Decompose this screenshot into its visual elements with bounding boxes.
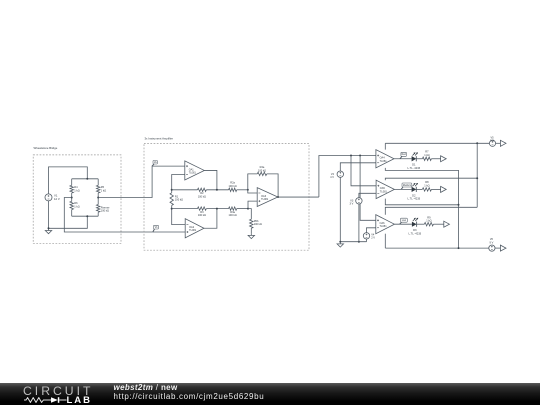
junction V1-/ground [48, 227, 50, 229]
svg-text:1 kΩ: 1 kΩ [424, 153, 429, 157]
svg-text:Wheatstone Bridge: Wheatstone Bridge [34, 146, 58, 150]
logo resistor zigzag [24, 398, 51, 403]
svg-text:1 kΩ: 1 kΩ [74, 205, 79, 209]
wire left tap to OA2+ run [64, 198, 153, 233]
wire to OA3 non-inverting input [248, 201, 257, 209]
node V3 on ground run [358, 241, 360, 243]
wire in-amp output riser [319, 156, 376, 198]
wire R4a feedback top [248, 174, 257, 190]
wire signal trunk1 to OA5+ [351, 156, 376, 186]
wire OA3 output [278, 196, 319, 198]
port V- arrow [500, 245, 506, 251]
voltage source V1 [45, 194, 52, 201]
svg-text:TL081: TL081 [261, 198, 269, 201]
net flag Low [400, 222, 402, 224]
svg-text:3x Instrument Amplifier: 3x Instrument Amplifier [145, 137, 174, 141]
wire V2+ to OA4- [340, 163, 376, 171]
svg-text:100 kΩ: 100 kΩ [198, 213, 206, 217]
op-amp OA6 [376, 215, 395, 234]
op-amp OA2 [185, 219, 204, 238]
wire OA2 feedback to R3 node [204, 209, 217, 229]
LED D2 [412, 187, 417, 192]
node trunk A row2 [476, 177, 478, 179]
voltage source V5 (V+ 9V) [489, 140, 495, 146]
resistor R5b [250, 219, 253, 228]
net flag Vb (OA2 input) [153, 229, 155, 232]
wire to R5b [248, 209, 251, 220]
wire OA4 V+ pin [384, 143, 386, 149]
wire OA4 output [394, 158, 412, 160]
port V+ arrow [500, 140, 506, 146]
svg-text:Red: Red [402, 154, 407, 156]
resistor R5 (bridge right top) [97, 179, 99, 186]
svg-text:4 V: 4 V [330, 175, 334, 179]
wire V1+ to bridge top [49, 167, 88, 194]
node bridge top [86, 178, 88, 180]
ground (in-amp) [250, 233, 252, 235]
node bottom rail trunk B [458, 247, 460, 249]
annotation box: Wheatstone Bridge (dashed) [33, 155, 121, 243]
logo diode [51, 398, 58, 404]
node ground run [339, 241, 341, 243]
resistor R6 (bridge left bottom) [71, 198, 73, 202]
wire V1- to bridge bottom [49, 201, 88, 228]
op-amp OA1 [185, 161, 205, 180]
svg-text:100 kΩ: 100 kΩ [258, 168, 266, 172]
bridge bottom edge wire [72, 215, 99, 217]
svg-text:TL081: TL081 [189, 172, 197, 175]
wire V3+ to OA5- [359, 193, 376, 197]
wire V- bottom rail [385, 247, 489, 249]
node R1 bottom [171, 208, 173, 210]
svg-text:12 V: 12 V [54, 197, 60, 201]
wire OA1 inverting input [172, 175, 185, 190]
node OA5 V- junction [458, 204, 460, 206]
CircuitLab logo [22, 383, 102, 405]
wire to OA3 inverting input [248, 190, 257, 193]
annotation box: 3x Instrument Amplifier (dashed) [144, 144, 309, 251]
node R1 top [171, 189, 173, 191]
svg-text:9 V: 9 V [489, 240, 493, 244]
svg-text:3 V: 3 V [349, 202, 353, 206]
node signal trunk1 tap [350, 155, 352, 157]
svg-text:100 kΩ: 100 kΩ [175, 198, 183, 202]
wire V4+ to OA6- [367, 228, 376, 233]
node OA1 fb junction [216, 189, 218, 191]
resistor R8 [422, 188, 431, 191]
resistor R3 [198, 207, 207, 210]
node OA2 fb junction [216, 208, 218, 210]
svg-text:Medium: Medium [403, 185, 411, 187]
port output row3 [444, 221, 450, 227]
svg-text:9 V: 9 V [490, 139, 494, 143]
resistor Rsense (bridge right bottom) [97, 198, 99, 205]
svg-text:1 kΩ: 1 kΩ [101, 189, 106, 193]
port output row2 [441, 186, 447, 192]
bridge top edge wire [72, 178, 99, 180]
wire R3 row [172, 208, 198, 210]
svg-text:1 kΩ: 1 kΩ [74, 189, 79, 193]
svg-text:100 kΩ: 100 kΩ [101, 209, 109, 213]
net flag Medium [401, 187, 403, 189]
svg-text:1 kΩ: 1 kΩ [426, 219, 431, 223]
svg-text:TL081: TL081 [189, 229, 197, 232]
wire OA6 V- pin [384, 234, 386, 248]
wire V2- down to ground run [339, 177, 341, 241]
wire V+ trunk A [476, 143, 478, 207]
svg-text:L.TL -4233: L.TL -4233 [407, 166, 420, 170]
wire OA5 output [394, 188, 411, 190]
resistor R4 (bridge left top) [71, 179, 73, 186]
svg-text:1 kΩ: 1 kΩ [424, 183, 429, 187]
net flag Red [400, 156, 402, 158]
op-amp OA5 [376, 180, 394, 198]
wire V3- down [358, 204, 360, 242]
wire V4- down [366, 239, 368, 242]
wire OA4 V- pin [385, 168, 458, 248]
resistor R7 [422, 157, 431, 160]
node top rail trunk [476, 142, 478, 144]
resistor R3a [229, 207, 237, 210]
voltage source V3 [356, 198, 362, 204]
wire R2 row [172, 189, 198, 191]
resistor R1 (gain) [171, 190, 173, 193]
svg-text:L.TL -4233: L.TL -4233 [407, 197, 420, 201]
svg-text:TL081: TL081 [380, 160, 388, 163]
wire V6 to port [495, 247, 500, 249]
resistor R4a [257, 172, 266, 175]
wire right tap to OA1+ run [98, 166, 185, 197]
voltage source V4 [363, 233, 369, 239]
node signal trunk2 tap [359, 155, 361, 157]
svg-text:100 kΩ: 100 kΩ [198, 195, 206, 199]
wire OA6 output [394, 223, 412, 225]
svg-text:100 kΩ: 100 kΩ [229, 213, 237, 217]
wire signal trunk2 to OA6+ [360, 156, 376, 221]
svg-text:100 kΩ: 100 kΩ [229, 184, 237, 188]
svg-text:2 V: 2 V [371, 236, 375, 240]
svg-text:TL081: TL081 [380, 225, 388, 228]
svg-text:L.TL -4233: L.TL -4233 [408, 231, 421, 235]
wire R5b to ground [250, 228, 252, 233]
wire ground run [340, 241, 366, 243]
wire flag Vb to OA2 non-inverting input [153, 231, 185, 233]
port output row1 [441, 156, 447, 162]
wire R9 to port [433, 223, 443, 225]
LED D1 [412, 156, 417, 161]
resistor R2 [198, 188, 207, 191]
svg-text:TL081: TL081 [380, 190, 388, 193]
footer url line [114, 393, 265, 401]
wire R8 to port [431, 188, 440, 190]
wire OA6 V+ pin [385, 207, 477, 214]
wire V+ top rail [385, 142, 489, 144]
ground (bridge) [48, 228, 50, 230]
net flag Va (OA1 input) [152, 164, 154, 166]
resistor R2a [229, 188, 237, 191]
wire D2 to R8 [416, 188, 422, 190]
wire D3 to R9 [416, 223, 424, 225]
ground (references) [339, 242, 341, 244]
op-amp OA4 [376, 150, 394, 168]
wire V5 to port [496, 142, 501, 144]
wire R7 to port [431, 158, 440, 160]
wire OA2 inverting input [172, 209, 186, 225]
node bridge right tap [97, 197, 99, 199]
wire D1 to R7 [416, 158, 422, 160]
wire OA1 feedback to R2 node [204, 170, 217, 189]
op-amp OA3 [257, 188, 278, 207]
voltage source V2 [337, 171, 343, 177]
resistor R9 [424, 223, 433, 226]
node R3a junction [247, 208, 249, 210]
voltage source V6 (V- 9V) [489, 245, 495, 251]
wire OA5 V+ pin [385, 178, 477, 180]
wire R4a to OA3 output [267, 174, 278, 197]
svg-text:100 kΩ: 100 kΩ [254, 222, 262, 226]
LED D3 [412, 222, 417, 227]
wire OA5 V- pin [385, 199, 458, 205]
node bridge bottom [86, 215, 88, 217]
footer user/project line [114, 384, 178, 392]
svg-text:Low: Low [402, 220, 407, 222]
node OA3 output [277, 196, 279, 198]
node R2a-R4a junction [247, 189, 249, 191]
node bridge left tap [71, 197, 73, 199]
